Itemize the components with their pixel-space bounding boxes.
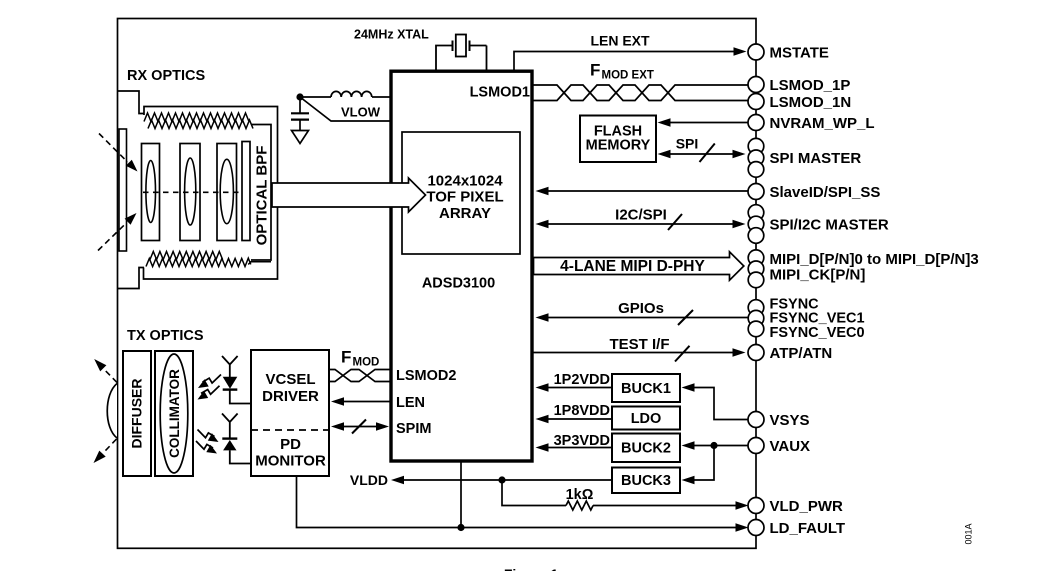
svg-text:LDO: LDO bbox=[631, 411, 662, 427]
svg-text:I2C/SPI: I2C/SPI bbox=[615, 207, 667, 224]
wire SlaveID/SPI_SS bbox=[536, 187, 750, 195]
wire LEN bbox=[331, 397, 391, 405]
regulator BUCK2 bbox=[612, 434, 680, 463]
pin label LSMOD2 bbox=[396, 368, 456, 384]
svg-text:BUCK2: BUCK2 bbox=[621, 441, 671, 457]
optical band pass filter plate bbox=[242, 142, 250, 241]
svg-text:F: F bbox=[341, 348, 351, 367]
svg-text:ATP/ATN: ATP/ATN bbox=[770, 345, 833, 362]
svg-text:MSTATE: MSTATE bbox=[770, 44, 829, 61]
wide arrow 4-LANE MIPI D-PHY bbox=[534, 252, 744, 280]
svg-text:4-LANE MIPI D-PHY: 4-LANE MIPI D-PHY bbox=[560, 258, 705, 275]
incoming light dashed arrow 2 bbox=[98, 213, 137, 251]
svg-text:OPTICAL BPF: OPTICAL BPF bbox=[254, 146, 271, 246]
svg-text:VLOW: VLOW bbox=[341, 105, 381, 120]
label ADSD3100 bbox=[422, 276, 495, 292]
capacitor C1 bbox=[291, 97, 309, 130]
node VLOW junction dot bbox=[296, 93, 303, 100]
regulator BUCK3 bbox=[612, 468, 680, 494]
wire chip bottom to LD_FAULT net bbox=[460, 461, 462, 528]
svg-text:GPIOs: GPIOs bbox=[618, 300, 664, 317]
VCSEL laser diode D1 bbox=[222, 356, 251, 404]
svg-text:MOD EXT: MOD EXT bbox=[602, 70, 654, 82]
svg-text:MOD: MOD bbox=[353, 357, 380, 369]
svg-text:1P8VDD: 1P8VDD bbox=[554, 403, 610, 419]
wire NVRAM_WP_L to flash bbox=[658, 118, 750, 126]
lens element 3 box bbox=[217, 144, 237, 241]
pin label LEN bbox=[396, 395, 425, 411]
svg-text:LSMOD2: LSMOD2 bbox=[396, 368, 456, 384]
label FMOD EXT bbox=[590, 61, 654, 82]
wire SPI bus bbox=[658, 136, 746, 163]
caption Figure 1 partial bbox=[504, 566, 562, 571]
svg-text:SlaveID/SPI_SS: SlaveID/SPI_SS bbox=[770, 184, 881, 201]
RX barrel bottom threads bbox=[146, 252, 271, 267]
crystal Y1 24MHz XTAL bbox=[354, 28, 487, 72]
wire I2C/SPI bus bbox=[536, 207, 746, 231]
RX front window plate bbox=[119, 129, 127, 251]
pin group SPI/I2C MASTER bbox=[748, 205, 889, 244]
svg-text:LEN: LEN bbox=[396, 395, 425, 411]
pin VAUX bbox=[748, 438, 810, 455]
pin LSMOD_1N bbox=[748, 94, 851, 111]
svg-text:LSMOD1: LSMOD1 bbox=[470, 85, 530, 101]
wire PD monitor to LD_FAULT bbox=[297, 476, 749, 532]
svg-text:FSYNC_VEC0: FSYNC_VEC0 bbox=[770, 325, 865, 341]
svg-text:1P2VDD: 1P2VDD bbox=[554, 372, 610, 388]
pin VSYS bbox=[748, 412, 810, 429]
pin MSTATE bbox=[748, 44, 829, 61]
lens element 2 box bbox=[180, 144, 200, 241]
net label VLOW bbox=[341, 105, 381, 120]
svg-text:SPI/I2C MASTER: SPI/I2C MASTER bbox=[770, 216, 889, 233]
outgoing light dashed arrow 1 bbox=[94, 359, 117, 383]
label TX OPTICS bbox=[127, 328, 204, 344]
svg-text:1kΩ: 1kΩ bbox=[566, 487, 594, 503]
monitor photodiode D2 bbox=[222, 414, 251, 464]
pin NVRAM_WP_L bbox=[748, 115, 875, 132]
wire VAUX to BUCK3 bbox=[682, 446, 715, 485]
junction dot VAUX net bbox=[710, 442, 717, 449]
svg-text:BUCK1: BUCK1 bbox=[621, 381, 671, 397]
RX barrel top threads bbox=[144, 113, 253, 129]
wire VAUX to BUCK2 bbox=[682, 441, 749, 449]
RX lens mount housing bbox=[144, 107, 278, 280]
svg-text:DRIVER: DRIVER bbox=[262, 388, 319, 405]
wire 3P3VDD bbox=[536, 433, 613, 452]
svg-text:SPIM: SPIM bbox=[396, 421, 431, 437]
wire VLOW to chip bbox=[300, 97, 391, 121]
svg-text:24MHz XTAL: 24MHz XTAL bbox=[354, 28, 429, 42]
pin group MIPI lanes bbox=[748, 250, 978, 288]
svg-text:001A: 001A bbox=[964, 523, 974, 544]
junction dot LD_FAULT net bbox=[457, 524, 464, 531]
svg-text:PD: PD bbox=[280, 436, 301, 453]
svg-text:Figure 1.: Figure 1. bbox=[504, 566, 562, 571]
wire SPIM bus bbox=[331, 420, 389, 434]
lens element 1 box bbox=[142, 144, 160, 241]
wire 1P2VDD bbox=[536, 372, 613, 392]
label FMOD bbox=[341, 348, 379, 369]
svg-text:VAUX: VAUX bbox=[770, 438, 811, 455]
pin label LSMOD1 bbox=[470, 85, 530, 101]
RX lens barrel front plate bbox=[118, 91, 145, 289]
svg-text:BUCK3: BUCK3 bbox=[621, 473, 671, 489]
junction dot VLDD net bbox=[498, 476, 505, 483]
wire LEN EXT bbox=[514, 33, 747, 72]
svg-text:MONITOR: MONITOR bbox=[255, 453, 326, 470]
emitted light bolt arrows bbox=[198, 375, 222, 400]
svg-text:LD_FAULT: LD_FAULT bbox=[770, 520, 846, 537]
wire to VLD_PWR bbox=[593, 501, 749, 509]
twisted pair FMOD LSMOD2 bbox=[329, 370, 391, 382]
pin LSMOD_1P bbox=[748, 77, 850, 94]
ground symbol bbox=[292, 131, 309, 144]
svg-text:MIPI_CK[P/N]: MIPI_CK[P/N] bbox=[770, 267, 866, 284]
pin ATP/ATN bbox=[748, 345, 832, 362]
pin LD_FAULT bbox=[748, 520, 845, 537]
svg-text:1024x1024: 1024x1024 bbox=[427, 172, 503, 189]
pin group FSYNC bbox=[748, 297, 864, 341]
pin SlaveID/SPI_SS bbox=[748, 184, 880, 201]
wire TEST I/F bus bbox=[534, 336, 746, 362]
inductor L1 bbox=[300, 91, 391, 97]
regulator LDO bbox=[612, 407, 680, 430]
wire BUCK3 output VLDD bbox=[350, 472, 612, 488]
label RX OPTICS bbox=[127, 68, 205, 84]
pixel array block 1024x1024 TOF PIXEL ARRAY bbox=[402, 132, 520, 254]
svg-text:NVRAM_WP_L: NVRAM_WP_L bbox=[770, 115, 875, 132]
lens 3 bbox=[220, 159, 233, 223]
wire VSYS to BUCK1 bbox=[682, 383, 749, 419]
svg-text:VLDD: VLDD bbox=[350, 472, 388, 488]
label OPTICAL BPF bbox=[254, 146, 271, 246]
lens 2 bbox=[185, 158, 196, 225]
svg-text:TOF PIXEL: TOF PIXEL bbox=[426, 189, 503, 206]
svg-text:MIPI_D[P/N]0 to MIPI_D[P/N]3: MIPI_D[P/N]0 to MIPI_D[P/N]3 bbox=[770, 251, 979, 268]
diffuser plate bbox=[123, 351, 151, 476]
flash memory U2 bbox=[580, 116, 656, 163]
svg-text:LEN EXT: LEN EXT bbox=[590, 33, 650, 49]
chip U1 ADSD3100 bbox=[391, 71, 532, 461]
svg-text:VSYS: VSYS bbox=[770, 412, 810, 429]
svg-text:VCSEL: VCSEL bbox=[265, 371, 315, 388]
svg-text:3P3VDD: 3P3VDD bbox=[554, 433, 610, 449]
svg-text:RX OPTICS: RX OPTICS bbox=[127, 68, 205, 84]
svg-text:COLLIMATOR: COLLIMATOR bbox=[167, 369, 182, 458]
svg-text:DIFFUSER: DIFFUSER bbox=[129, 379, 145, 449]
incoming light dashed arrow 1 bbox=[99, 134, 138, 172]
svg-text:ARRAY: ARRAY bbox=[439, 205, 491, 222]
svg-text:LSMOD_1P: LSMOD_1P bbox=[770, 77, 851, 94]
svg-text:LSMOD_1N: LSMOD_1N bbox=[770, 94, 852, 111]
svg-text:VLD_PWR: VLD_PWR bbox=[770, 498, 844, 515]
svg-text:TEST I/F: TEST I/F bbox=[610, 336, 670, 353]
VCSEL driver and PD monitor block bbox=[251, 350, 329, 476]
outgoing light dashed arrow 2 bbox=[94, 439, 117, 463]
svg-text:F: F bbox=[590, 61, 600, 80]
svg-text:SPI MASTER: SPI MASTER bbox=[770, 150, 862, 167]
wire GPIOs bus bbox=[536, 300, 750, 325]
svg-text:MEMORY: MEMORY bbox=[586, 137, 651, 153]
wide arrow RX to pixel array bbox=[272, 178, 426, 212]
svg-text:ADSD3100: ADSD3100 bbox=[422, 276, 495, 292]
pin group SPI MASTER bbox=[748, 138, 861, 177]
wire 1P8VDD bbox=[536, 403, 613, 423]
TX output lens arc bbox=[107, 384, 117, 439]
outer system boundary box bbox=[118, 19, 757, 549]
received light bolt arrows bbox=[196, 430, 219, 454]
regulator BUCK1 bbox=[612, 374, 680, 402]
resistor R1 1kohm bbox=[502, 480, 594, 510]
twisted pair LSMOD1 bbox=[533, 85, 749, 101]
lens 1 bbox=[146, 161, 156, 223]
pin VLD_PWR bbox=[748, 498, 843, 515]
RX barrel inner right wall bbox=[251, 125, 271, 261]
pin label SPIM bbox=[396, 421, 431, 437]
svg-text:TX OPTICS: TX OPTICS bbox=[127, 328, 204, 344]
svg-text:SPI: SPI bbox=[676, 136, 699, 152]
collimator bbox=[155, 351, 193, 476]
optical axis dashed centerline bbox=[143, 191, 243, 193]
figure code 001A bbox=[964, 523, 974, 544]
